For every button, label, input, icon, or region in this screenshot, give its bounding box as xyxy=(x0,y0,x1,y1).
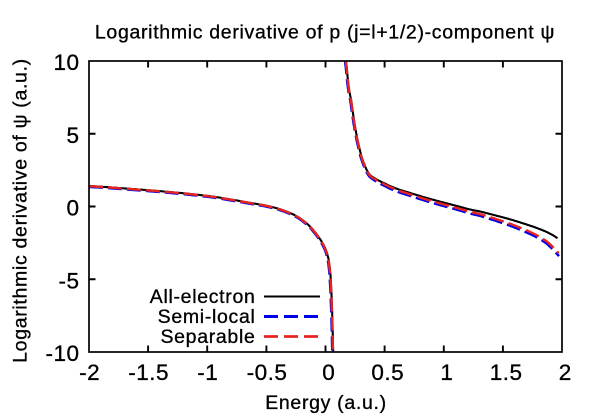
svg-text:Logarithmic derivative of p (j: Logarithmic derivative of p (j=l+1/2)-co… xyxy=(95,22,555,44)
svg-text:-2: -2 xyxy=(79,360,100,385)
svg-text:-10: -10 xyxy=(45,341,79,366)
svg-text:0: 0 xyxy=(322,360,335,385)
svg-text:Semi-local: Semi-local xyxy=(158,306,256,328)
svg-text:-1: -1 xyxy=(197,360,218,385)
svg-text:10: 10 xyxy=(53,50,79,75)
semi-local curve (blue dashed) xyxy=(89,60,559,353)
svg-text:2: 2 xyxy=(559,360,572,385)
separable curve (red dashed) xyxy=(89,60,559,353)
svg-text:1.5: 1.5 xyxy=(490,360,523,385)
svg-text:-0.5: -0.5 xyxy=(247,360,288,385)
svg-text:All-electron: All-electron xyxy=(150,286,256,308)
svg-text:0: 0 xyxy=(66,196,79,221)
svg-text:0.5: 0.5 xyxy=(371,360,404,385)
axis tick marks xyxy=(89,61,562,352)
svg-text:5: 5 xyxy=(66,123,79,148)
svg-text:-1.5: -1.5 xyxy=(128,360,169,385)
svg-text:Logarithmic derivative of ψ (a: Logarithmic derivative of ψ (a.u.) xyxy=(10,58,32,363)
all-electron curve (black solid) xyxy=(89,60,558,353)
svg-text:-5: -5 xyxy=(58,268,79,293)
svg-text:Separable: Separable xyxy=(160,326,255,348)
plot border xyxy=(89,61,562,352)
svg-text:1: 1 xyxy=(440,360,453,385)
svg-text:Energy (a.u.): Energy (a.u.) xyxy=(265,392,387,414)
